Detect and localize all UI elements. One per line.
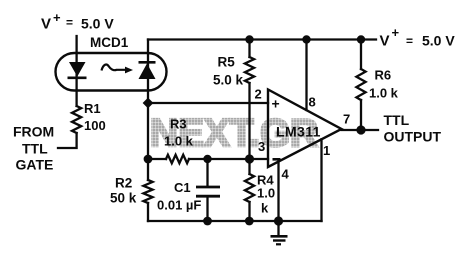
svg-text:+: + <box>272 96 280 112</box>
svg-text:TTL: TTL <box>22 141 48 157</box>
svg-text:C1: C1 <box>174 180 191 195</box>
svg-text:GATE: GATE <box>16 157 54 173</box>
svg-text:3: 3 <box>258 139 265 154</box>
svg-text:100: 100 <box>84 118 106 133</box>
svg-text:7: 7 <box>343 112 350 127</box>
svg-text:LM311: LM311 <box>276 124 321 140</box>
svg-text:V: V <box>380 33 390 50</box>
svg-text:1.0: 1.0 <box>257 186 275 201</box>
svg-text:50 k: 50 k <box>110 191 137 206</box>
svg-text:8: 8 <box>309 95 316 110</box>
svg-text:R3: R3 <box>170 117 187 132</box>
svg-text:=: = <box>66 16 73 30</box>
svg-text:2: 2 <box>255 87 262 102</box>
svg-text:FROM: FROM <box>13 124 54 140</box>
svg-text:V: V <box>41 16 51 33</box>
svg-text:0.01 µF: 0.01 µF <box>157 198 201 213</box>
svg-text:+: + <box>53 10 61 25</box>
svg-text:1: 1 <box>323 143 330 158</box>
svg-text:OUTPUT: OUTPUT <box>384 129 442 145</box>
svg-text:+: + <box>392 25 400 40</box>
svg-text:R6: R6 <box>375 68 392 83</box>
svg-text:TTL: TTL <box>384 112 410 128</box>
svg-text:1.0 k: 1.0 k <box>164 134 194 149</box>
svg-text:k: k <box>261 201 269 216</box>
svg-text:R2: R2 <box>115 176 132 191</box>
svg-text:MCD1: MCD1 <box>90 35 129 50</box>
svg-text:R5: R5 <box>218 55 236 70</box>
svg-text:R1: R1 <box>84 101 101 116</box>
svg-text:5.0 V: 5.0 V <box>422 33 455 49</box>
svg-text:1.0 k: 1.0 k <box>369 86 399 101</box>
svg-text:=: = <box>406 34 413 48</box>
svg-text:5.0 V: 5.0 V <box>81 16 114 32</box>
svg-text:4: 4 <box>282 167 290 182</box>
svg-text:5.0 k: 5.0 k <box>213 73 244 88</box>
